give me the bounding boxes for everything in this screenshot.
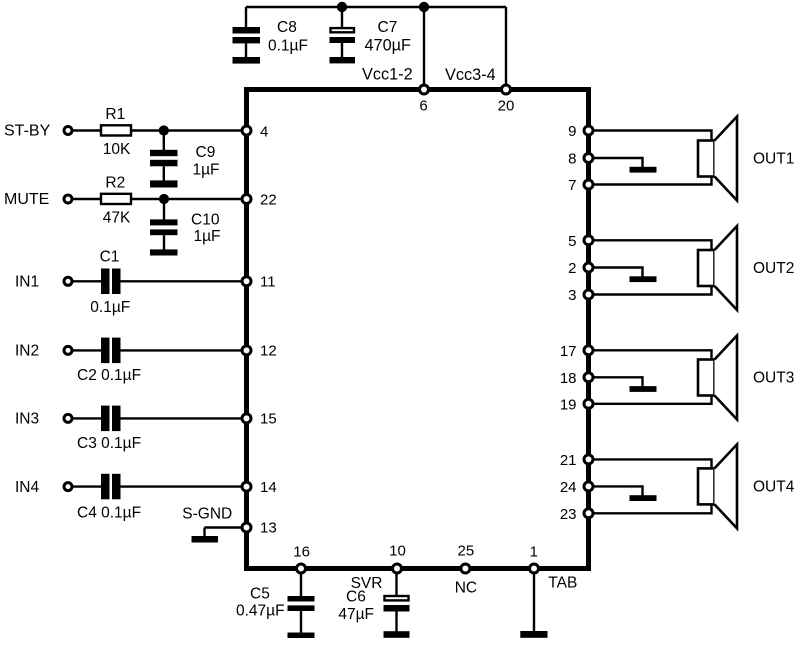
wire R2 to pin 22 — [131, 198, 245, 200]
pin 12 circle — [242, 346, 251, 355]
terminal IN2 — [64, 346, 72, 354]
pin 1 circle — [530, 564, 539, 573]
IC U1 box — [247, 90, 589, 569]
pin 16 circle — [297, 564, 306, 573]
svg-text:1µF: 1µF — [193, 162, 220, 179]
pin 3 circle — [584, 290, 593, 299]
capacitor C1 — [101, 269, 121, 295]
junction node ST-BY/C9 — [159, 125, 169, 135]
svg-text:18: 18 — [560, 370, 577, 387]
pin 5 circle — [584, 236, 593, 245]
ground of C10 — [150, 249, 178, 255]
svg-text:Vcc3-4: Vcc3-4 — [445, 66, 496, 84]
wire top supply bus — [246, 6, 506, 8]
svg-text:TAB: TAB — [548, 575, 577, 592]
ground on pin 18 wire — [630, 386, 657, 392]
terminal MUTE — [64, 195, 72, 203]
resistor R2 — [101, 194, 131, 204]
wire pin 3 to speaker LS2 — [592, 285, 712, 295]
wire pin 8 to ground — [592, 158, 643, 168]
svg-text:NC: NC — [455, 580, 477, 597]
wire pin 18 to ground — [592, 377, 643, 387]
junction on bus above C7 — [337, 2, 347, 12]
wire bus to pin 20 — [505, 7, 507, 89]
svg-text:C4 0.1µF: C4 0.1µF — [77, 504, 141, 521]
wire pin 5 to speaker LS2 — [592, 240, 712, 251]
svg-text:C7: C7 — [378, 19, 398, 36]
wire C4 to pin 14 — [121, 485, 246, 487]
wire C5 stub — [300, 571, 302, 597]
svg-text:OUT2: OUT2 — [753, 260, 794, 277]
capacitor C8 — [233, 27, 261, 57]
svg-text:IN3: IN3 — [15, 411, 39, 428]
svg-text:R2: R2 — [105, 175, 125, 192]
svg-text:13: 13 — [260, 520, 277, 537]
svg-text:25: 25 — [458, 542, 475, 559]
pin 4 circle — [242, 126, 251, 135]
svg-text:11: 11 — [260, 274, 276, 291]
pin 17 circle — [584, 346, 593, 355]
capacitor C2 — [101, 338, 121, 364]
pin 6 circle — [420, 85, 429, 94]
ground on pin 2 wire — [630, 276, 657, 282]
resistor R1 — [101, 125, 131, 135]
svg-text:MUTE: MUTE — [4, 191, 49, 208]
svg-text:IN4: IN4 — [15, 479, 40, 496]
speaker LS1 — [698, 117, 737, 201]
svg-text:9: 9 — [568, 123, 576, 140]
svg-text:14: 14 — [260, 479, 277, 496]
svg-text:10: 10 — [389, 542, 406, 559]
svg-text:0.1µF: 0.1µF — [90, 299, 130, 316]
wire IN2 to C2 — [72, 349, 101, 351]
svg-text:0.47µF: 0.47µF — [236, 603, 285, 620]
svg-text:470µF: 470µF — [365, 37, 412, 55]
svg-text:21: 21 — [560, 452, 577, 469]
wire C1 to pin 11 — [121, 280, 246, 282]
svg-text:3: 3 — [568, 287, 576, 304]
terminal IN4 — [64, 483, 72, 491]
wire pin 17 to speaker LS3 — [592, 350, 712, 361]
svg-text:5: 5 — [568, 233, 576, 250]
wire pin 24 to ground — [592, 486, 643, 496]
svg-text:ST-BY: ST-BY — [4, 122, 51, 139]
terminal IN3 — [64, 414, 72, 422]
wire C6 stub — [395, 571, 397, 596]
svg-text:C6: C6 — [346, 589, 366, 606]
speaker LS3 — [698, 336, 737, 420]
svg-text:19: 19 — [560, 396, 577, 413]
svg-text:1: 1 — [530, 543, 538, 560]
wire C2 to pin 12 — [121, 349, 246, 351]
ground S-GND — [192, 536, 219, 543]
ground on pin 8 wire — [630, 167, 657, 173]
wire ST-BY to R1 — [72, 129, 101, 131]
svg-text:C9: C9 — [196, 144, 216, 161]
svg-text:IN2: IN2 — [15, 343, 39, 360]
capacitor C3 — [101, 406, 121, 432]
junction on bus above pin 6 — [419, 2, 429, 12]
svg-text:0.1µF: 0.1µF — [268, 38, 308, 55]
wire TAB stub — [533, 571, 535, 632]
wire IN3 to C3 — [72, 417, 101, 419]
svg-text:22: 22 — [260, 192, 277, 209]
speaker LS4 — [698, 444, 737, 528]
svg-text:47µF: 47µF — [338, 606, 374, 623]
pin 11 circle — [242, 277, 251, 286]
terminal IN1 — [64, 277, 72, 285]
svg-text:20: 20 — [498, 98, 515, 115]
svg-text:8: 8 — [568, 151, 576, 168]
capacitor C6 (electrolytic) — [384, 596, 410, 632]
ground of C5 — [288, 633, 315, 639]
svg-text:23: 23 — [560, 506, 577, 523]
svg-text:OUT3: OUT3 — [753, 370, 794, 387]
pin 13 circle — [242, 523, 251, 532]
svg-text:C10: C10 — [191, 211, 220, 228]
wire C8 stub — [245, 7, 247, 28]
wire IN4 to C4 — [72, 485, 101, 487]
capacitor C5 — [288, 596, 315, 633]
svg-text:17: 17 — [560, 343, 577, 360]
wire pin 9 to speaker LS1 — [592, 131, 712, 143]
svg-text:7: 7 — [568, 177, 576, 194]
svg-text:4: 4 — [260, 123, 268, 140]
svg-text:16: 16 — [293, 543, 310, 560]
capacitor C4 — [101, 474, 121, 500]
svg-text:6: 6 — [419, 98, 427, 115]
svg-text:S-GND: S-GND — [182, 506, 232, 523]
wire C10 stub — [163, 199, 165, 220]
ground of C7 — [330, 57, 356, 63]
wire MUTE to R2 — [72, 198, 101, 200]
wire C3 to pin 15 — [121, 417, 246, 419]
speaker LS2 — [698, 226, 737, 310]
pin 14 circle — [242, 482, 251, 491]
svg-text:C8: C8 — [277, 19, 297, 36]
pin 25 circle — [461, 564, 470, 573]
wire pin 2 to ground — [592, 268, 643, 278]
pin 23 circle — [584, 509, 593, 518]
wire pin 19 to speaker LS3 — [592, 394, 712, 404]
pin 7 circle — [584, 180, 593, 189]
svg-text:24: 24 — [560, 479, 577, 496]
wire C7 stub — [341, 7, 343, 28]
pin 22 circle — [242, 195, 251, 204]
wire pin 7 to speaker LS1 — [592, 175, 712, 185]
pin 9 circle — [584, 126, 593, 135]
pin 24 circle — [584, 482, 593, 491]
svg-text:10K: 10K — [103, 141, 131, 158]
capacitor C7 (electrolytic) — [330, 28, 356, 57]
svg-text:IN1: IN1 — [15, 274, 39, 291]
svg-text:C5: C5 — [250, 585, 270, 602]
pin 19 circle — [584, 399, 593, 408]
pin 20 circle — [502, 85, 511, 94]
svg-text:OUT4: OUT4 — [753, 479, 795, 496]
capacitor C9 — [150, 150, 178, 181]
wire IN1 to C1 — [72, 280, 101, 282]
svg-text:12: 12 — [260, 343, 277, 360]
wire C9 stub — [163, 131, 165, 151]
ground of C8 — [233, 57, 261, 64]
wire bus to pin 6 — [423, 7, 425, 89]
svg-text:1µF: 1µF — [194, 228, 221, 245]
pin 15 circle — [242, 414, 251, 423]
svg-text:Vcc1-2: Vcc1-2 — [362, 66, 413, 84]
svg-text:C1: C1 — [100, 249, 120, 266]
svg-text:C2 0.1µF: C2 0.1µF — [77, 367, 141, 384]
svg-text:15: 15 — [260, 411, 277, 428]
svg-text:47K: 47K — [103, 209, 131, 226]
ground of C6 — [384, 631, 410, 638]
svg-text:R1: R1 — [105, 106, 125, 123]
ground on pin 24 wire — [630, 495, 657, 501]
capacitor C10 — [150, 219, 178, 250]
pin 21 circle — [584, 455, 593, 464]
pin 10 circle — [393, 564, 402, 573]
terminal ST-BY — [64, 127, 72, 135]
svg-text:2: 2 — [568, 260, 576, 277]
wire pin 21 to speaker LS4 — [592, 459, 712, 470]
pin 18 circle — [584, 373, 593, 382]
wire pin 23 to speaker LS4 — [592, 503, 712, 513]
pin 8 circle — [584, 154, 593, 163]
svg-text:C3 0.1µF: C3 0.1µF — [77, 435, 141, 452]
ground of C9 — [150, 180, 178, 187]
wire R1 to pin 4 — [131, 129, 245, 131]
wire pin 13 to ground — [205, 528, 246, 537]
junction node MUTE/C10 — [159, 194, 169, 204]
pin 2 circle — [584, 263, 593, 272]
ground of TAB — [520, 631, 547, 638]
svg-text:OUT1: OUT1 — [753, 150, 794, 167]
